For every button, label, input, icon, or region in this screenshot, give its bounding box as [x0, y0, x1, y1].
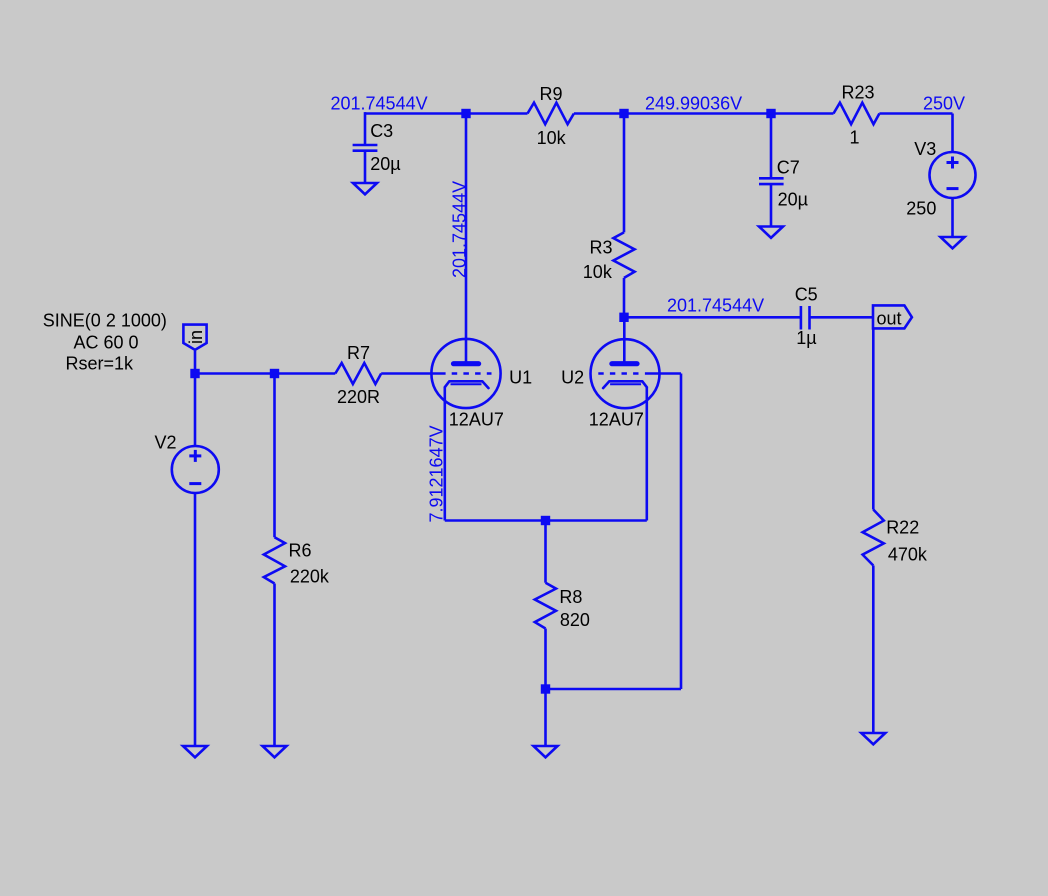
svg-text:AC 60 0: AC 60 0	[74, 333, 139, 353]
ground under R6	[263, 746, 287, 757]
wire out rail	[624, 316, 801, 319]
svg-text:10k: 10k	[583, 262, 613, 282]
wire cathode rail	[445, 519, 647, 522]
svg-text:250V: 250V	[923, 94, 965, 114]
wire R22 bottom lead	[872, 566, 875, 734]
wire C3 top lead	[364, 112, 367, 145]
voltage source V3	[930, 152, 976, 198]
triode U1	[431, 339, 500, 408]
wire U2 cathode lead	[645, 387, 648, 520]
svg-text:250: 250	[906, 199, 936, 219]
svg-text:R7: R7	[347, 343, 370, 363]
resistor R8	[535, 583, 556, 629]
port in	[183, 325, 206, 350]
svg-text:12AU7: 12AU7	[589, 410, 644, 430]
svg-text:Rser=1k: Rser=1k	[66, 354, 135, 374]
capacitor C5	[800, 306, 803, 330]
svg-text:C5: C5	[795, 285, 818, 305]
U2 grid dashes	[598, 372, 638, 375]
wire R7 to U1 grid	[381, 372, 445, 375]
resistor R22	[863, 510, 884, 566]
wire input rail	[195, 372, 335, 375]
resistor R9	[528, 103, 574, 125]
wire C3 bottom lead	[364, 151, 367, 183]
svg-text:R9: R9	[540, 84, 563, 104]
svg-text:201.74544V: 201.74544V	[331, 94, 428, 114]
wire U2 grid lead right	[645, 372, 681, 375]
resistor R3	[623, 114, 626, 233]
svg-text:R8: R8	[559, 587, 582, 607]
svg-text:820: 820	[560, 610, 590, 630]
ground under C3	[353, 183, 377, 194]
wire U2 plate lead	[623, 317, 626, 361]
wire V3 bottom lead	[951, 198, 954, 237]
capacitor C3	[353, 144, 378, 147]
triode U2	[591, 339, 660, 408]
wire feedback horizontal	[546, 688, 682, 691]
wire C5 to out port	[810, 316, 874, 319]
svg-text:R23: R23	[842, 83, 875, 103]
wire out port down	[872, 328, 875, 509]
wire U1 plate lead	[465, 114, 468, 362]
svg-text:U2: U2	[561, 368, 584, 388]
svg-text:R3: R3	[590, 238, 613, 258]
wire top rail right	[879, 112, 952, 115]
junction R8 bottom / feedback	[541, 684, 550, 693]
svg-text:220R: 220R	[337, 387, 380, 407]
svg-text:V3: V3	[914, 139, 936, 159]
wire C7 bottom lead	[770, 184, 773, 226]
wire top rail left	[365, 112, 528, 115]
svg-text:12AU7: 12AU7	[449, 410, 504, 430]
svg-text:out: out	[877, 309, 902, 329]
junction top rail / U1 plate	[461, 109, 470, 118]
junction top rail / R3	[619, 109, 628, 118]
ground under R22	[861, 733, 885, 744]
resistor R23	[834, 103, 880, 125]
svg-text:201.74544V: 201.74544V	[667, 296, 764, 316]
resistor R7	[335, 363, 381, 384]
svg-text:1: 1	[850, 128, 860, 148]
capacitor C7	[759, 177, 784, 180]
wire V2 bottom lead	[194, 493, 197, 746]
wire top rail middle	[574, 112, 834, 115]
wire V2 top lead	[194, 374, 197, 447]
svg-text:10k: 10k	[537, 128, 567, 148]
junction cathode rail / R8	[541, 516, 550, 525]
wire feedback vertical	[680, 374, 683, 690]
ground under V2	[183, 746, 207, 757]
svg-text:220k: 220k	[290, 567, 330, 587]
junction R3 / U2 plate / out rail	[619, 313, 628, 322]
svg-text:C3: C3	[370, 121, 393, 141]
wire R8 bottom lead	[544, 629, 547, 690]
voltage source V2	[172, 446, 219, 493]
svg-text:R22: R22	[886, 518, 919, 538]
wire in port lead	[194, 351, 197, 374]
ground under R8	[534, 746, 558, 757]
svg-text:20µ: 20µ	[778, 190, 808, 210]
wire R8 top lead	[544, 521, 547, 583]
wire R3 bottom lead	[623, 278, 626, 317]
svg-text:470k: 470k	[888, 544, 928, 564]
svg-text:249.99036V: 249.99036V	[645, 94, 742, 114]
svg-text:SINE(0 2 1000): SINE(0 2 1000)	[43, 311, 167, 331]
port out	[873, 305, 912, 328]
svg-text:in: in	[186, 330, 206, 344]
svg-text:V2: V2	[155, 433, 177, 453]
ground under V3	[941, 237, 965, 248]
wire V3 top lead	[951, 114, 954, 153]
junction in / V2	[190, 369, 199, 378]
junction top rail / C7	[766, 109, 775, 118]
svg-text:20µ: 20µ	[370, 154, 400, 174]
wire U1 cathode lead	[443, 387, 446, 520]
U1 grid dashes	[452, 372, 492, 375]
resistor R6	[264, 537, 285, 583]
ground under C7	[759, 227, 783, 238]
junction R6 tap	[270, 369, 279, 378]
svg-text:201.74544V: 201.74544V	[450, 181, 470, 278]
wire R6 top lead	[273, 374, 276, 538]
svg-text:1µ: 1µ	[796, 328, 816, 348]
svg-text:7.9121647V: 7.9121647V	[427, 425, 447, 522]
svg-text:C7: C7	[777, 158, 800, 178]
wire R6 bottom lead	[273, 584, 276, 747]
wire R8 to ground	[544, 689, 547, 746]
wire C7 top lead	[770, 114, 773, 179]
svg-text:R6: R6	[289, 540, 312, 560]
svg-text:U1: U1	[509, 368, 532, 388]
